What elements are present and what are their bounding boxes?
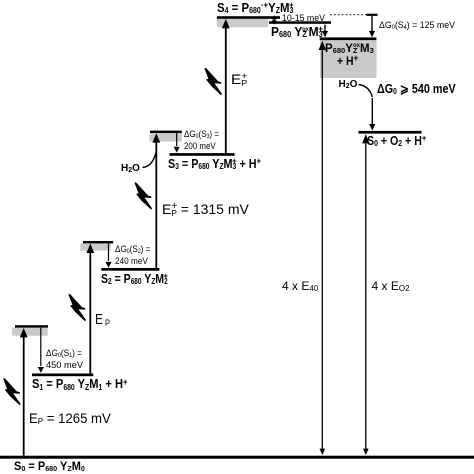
S1 level line: [32, 374, 93, 377]
deltaG S2 relaxation arrow: [105, 243, 111, 267]
label H2O right: [339, 80, 358, 90]
baseline level S0: [0, 456, 474, 459]
label S3 state: [168, 157, 261, 170]
label deltaG0 >= 540 meV: [377, 82, 456, 95]
S3 upper bar line: [150, 131, 182, 133]
gray box top line: [320, 37, 377, 40]
label EP+ = 1315 mV: [162, 202, 249, 216]
10-15 meV double arrow: [272, 15, 277, 24]
double arrow 4xE40: [319, 41, 326, 455]
deltaG S4 arrow with top cap: [367, 15, 378, 38]
arrow P680Yzox level down to gray box: [322, 25, 328, 38]
H2O curved arrow at S3 step: [143, 153, 156, 168]
label gray box state line 2: [337, 57, 358, 69]
label 10-15 meV: [282, 14, 325, 23]
label S4 state: [217, 1, 294, 14]
gray box of P680YzoxM3 + H+: [320, 40, 377, 78]
S4 gray bar: [217, 19, 268, 28]
S4 level line: [217, 16, 280, 19]
label deltaG(S2) line 1: [115, 245, 150, 255]
label gray box state line 1: [325, 44, 374, 56]
label S1 state: [32, 377, 128, 390]
label deltaG(S3) line 2: [184, 142, 216, 152]
S2 upper bar line: [83, 241, 113, 243]
S3 level line: [170, 153, 235, 156]
S2 upper bar gray: [80, 243, 110, 250]
label 4xEO2: [372, 280, 410, 292]
arrow S2 to S3: [152, 133, 160, 269]
label S0 + O2 + H+: [367, 135, 426, 148]
label deltaG(S4) = 125 meV: [379, 21, 455, 31]
P680Yzox M3+ level line: [269, 21, 331, 24]
deltaG S3 relaxation arrow: [174, 133, 180, 153]
S0+O2 level line: [359, 131, 422, 134]
photon bolt 1: [4, 378, 20, 404]
label 4xE40: [282, 280, 318, 292]
label S2 state: [101, 272, 168, 285]
label S0 state: [14, 462, 85, 474]
label EP at S1-S2: [95, 312, 110, 327]
label deltaG(S1) line 2: [46, 361, 83, 371]
label deltaG(S2) line 2: [115, 257, 148, 267]
arrow S0 to S1: [20, 328, 28, 456]
photon bolt 2: [69, 294, 85, 320]
S3 upper bar gray: [150, 133, 182, 142]
label deltaG(S1) line 1: [46, 349, 82, 359]
label P680Yzox M3+ state: [271, 25, 323, 38]
H2O curved arrow to S0+O2: [359, 85, 376, 131]
photon bolt 3: [135, 183, 151, 209]
label EP+ upper: [231, 72, 247, 86]
arrow S3 to S4: [222, 19, 230, 154]
dashed reference line: [330, 14, 372, 16]
label EP = 1265 mV: [29, 411, 111, 425]
label H2O left: [121, 164, 140, 174]
double arrow 4xEO2: [362, 134, 369, 455]
label deltaG(S3) line 1: [184, 130, 219, 140]
S1 upper bar gray: [12, 327, 48, 335]
photon bolt 4: [205, 68, 221, 94]
S2 level line: [101, 268, 159, 271]
arrow S1 to S2: [86, 244, 94, 374]
deltaG S1 relaxation arrow: [38, 328, 44, 373]
S1 upper bar line: [15, 325, 48, 327]
